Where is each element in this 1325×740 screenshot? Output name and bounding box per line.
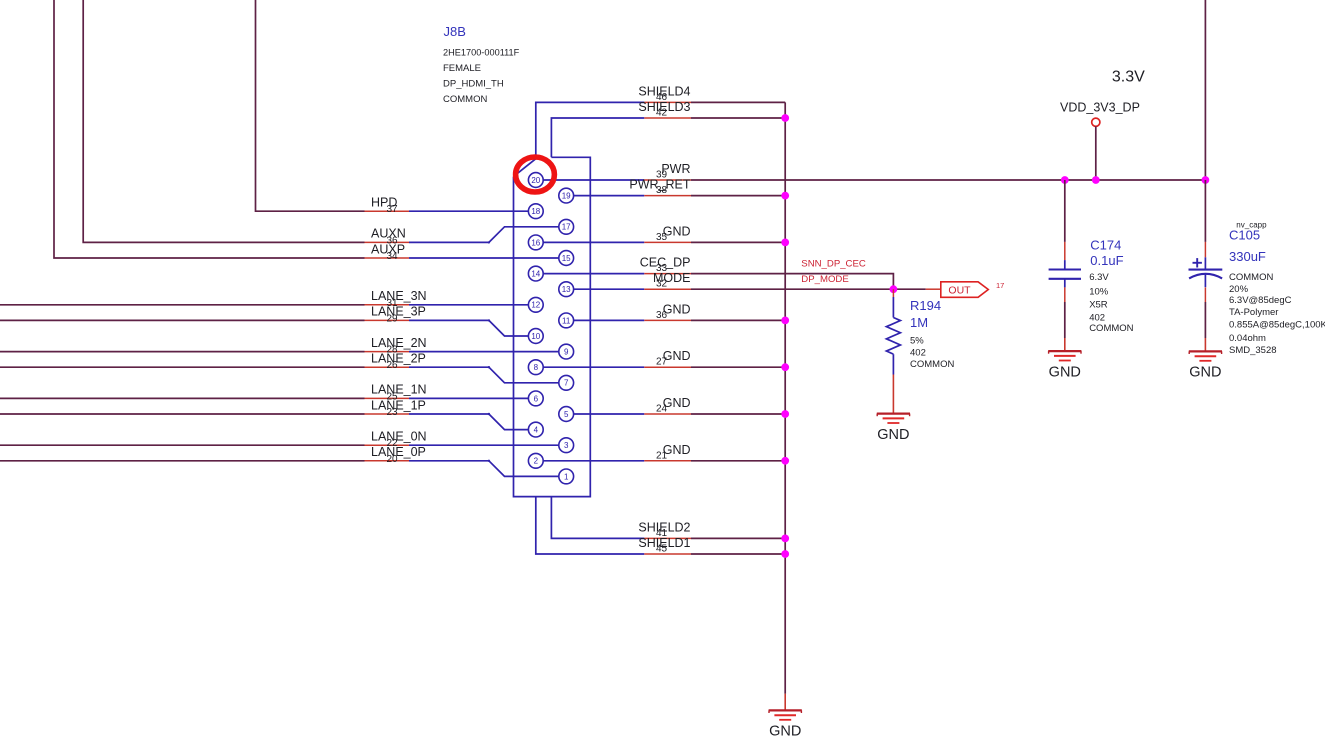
svg-text:402: 402 — [910, 347, 926, 358]
svg-text:0.855A@85degC,100KHz: 0.855A@85degC,100KHz — [1229, 319, 1325, 330]
resistor R194 — [892, 289, 894, 297]
junction — [781, 363, 789, 371]
junction — [781, 410, 789, 418]
svg-text:SMD_3528: SMD_3528 — [1229, 345, 1277, 356]
highlight circle (pin 20) — [516, 157, 555, 192]
junction (C174) — [1061, 176, 1069, 184]
svg-text:12: 12 — [531, 301, 540, 310]
svg-text:3.3V: 3.3V — [1112, 69, 1145, 86]
pin 12 — [528, 297, 543, 312]
svg-text:32: 32 — [656, 279, 668, 290]
capacitor C105 — [1204, 180, 1206, 242]
svg-text:LANE_0N: LANE_0N — [371, 430, 427, 444]
svg-text:OUT: OUT — [948, 284, 971, 296]
wire HPD (from top) — [256, 0, 365, 211]
svg-text:GND: GND — [877, 427, 909, 443]
svg-text:DP_MODE: DP_MODE — [801, 274, 848, 285]
svg-text:LANE_1P: LANE_1P — [371, 398, 426, 412]
svg-text:10%: 10% — [1089, 287, 1109, 298]
svg-text:COMMON: COMMON — [910, 359, 954, 370]
wire SHIELD3 stub — [551, 118, 644, 157]
wire SHIELD1 — [644, 553, 691, 555]
svg-text:10: 10 — [531, 332, 540, 341]
svg-text:16: 16 — [531, 238, 540, 247]
wire CEC_DP (pin 14) — [543, 273, 644, 275]
svg-text:34: 34 — [387, 251, 399, 262]
junction — [781, 192, 789, 200]
svg-text:6.3V@85degC: 6.3V@85degC — [1229, 295, 1292, 306]
wire SHIELD4 stub — [536, 102, 645, 158]
pin 7 — [559, 375, 574, 390]
wire LANE_2N — [0, 351, 365, 353]
pin 6 — [528, 391, 543, 406]
wire AUXN (from top-left) — [83, 0, 364, 242]
wire LANE_3P — [0, 319, 365, 321]
svg-text:GND: GND — [769, 724, 801, 740]
svg-text:4: 4 — [534, 426, 539, 435]
connector J8B chamfer — [514, 159, 537, 177]
wire LANE_2P — [0, 366, 365, 368]
wire LANE_0N — [0, 444, 365, 446]
junction — [781, 114, 789, 122]
svg-text:17: 17 — [562, 223, 571, 232]
svg-text:6.3V: 6.3V — [1089, 272, 1109, 283]
pin 8 — [528, 360, 543, 375]
wire SHIELD1 stub — [536, 497, 645, 554]
svg-text:18: 18 — [531, 207, 540, 216]
svg-text:26: 26 — [387, 360, 399, 371]
svg-text:C174: C174 — [1090, 238, 1121, 253]
wire VDD stub — [1095, 126, 1097, 180]
pin 13 — [559, 282, 574, 297]
wire SHIELD3 — [644, 117, 691, 119]
wire GND pin 8 — [543, 366, 644, 368]
wire GND pin 11 — [574, 319, 645, 321]
pin 17 — [559, 219, 574, 234]
wire GND pin 16 — [543, 241, 644, 243]
svg-text:37: 37 — [387, 204, 399, 215]
svg-text:13: 13 — [562, 285, 571, 294]
wire vertical bus (shield/gnd return) — [784, 102, 786, 693]
pin 5 — [559, 407, 574, 422]
pin 19 — [559, 188, 574, 203]
pin 15 — [559, 251, 574, 266]
svg-text:LANE_1N: LANE_1N — [371, 383, 427, 397]
junction — [781, 535, 789, 543]
svg-text:6: 6 — [534, 394, 539, 403]
pin 4 — [528, 422, 543, 437]
wire LANE_1P — [0, 413, 365, 415]
wire SHIELD2 — [644, 537, 691, 539]
wire LANE_0P — [0, 460, 365, 462]
svg-text:VDD_3V3_DP: VDD_3V3_DP — [1060, 100, 1140, 114]
junction — [781, 550, 789, 558]
svg-text:11: 11 — [562, 316, 571, 325]
pin 1 — [559, 469, 574, 484]
svg-text:35: 35 — [656, 232, 668, 243]
ground (C174) — [1064, 338, 1066, 351]
svg-text:X5R: X5R — [1089, 300, 1108, 311]
svg-text:402: 402 — [1089, 313, 1105, 324]
svg-text:9: 9 — [564, 348, 569, 357]
svg-text:20: 20 — [387, 454, 399, 465]
wire LANE_3N — [0, 304, 365, 306]
svg-text:R194: R194 — [910, 298, 941, 313]
svg-text:FEMALE: FEMALE — [443, 63, 481, 74]
svg-text:LANE_2P: LANE_2P — [371, 352, 426, 366]
svg-text:330uF: 330uF — [1229, 249, 1266, 264]
junction — [781, 239, 789, 247]
svg-text:20: 20 — [531, 176, 540, 185]
svg-text:GND: GND — [1189, 365, 1221, 381]
svg-text:14: 14 — [531, 270, 540, 279]
svg-text:21: 21 — [656, 450, 668, 461]
svg-text:1: 1 — [564, 472, 569, 481]
svg-text:DP_HDMI_TH: DP_HDMI_TH — [443, 79, 504, 90]
svg-text:LANE_3P: LANE_3P — [371, 305, 426, 319]
svg-text:38: 38 — [656, 185, 668, 196]
connector J8B body — [514, 157, 591, 496]
pin 16 — [528, 235, 543, 250]
svg-text:0.1uF: 0.1uF — [1090, 253, 1123, 268]
svg-text:5%: 5% — [910, 335, 924, 346]
svg-text:LANE_0P: LANE_0P — [371, 445, 426, 459]
svg-text:42: 42 — [656, 108, 668, 119]
svg-text:2HE1700-000111F: 2HE1700-000111F — [443, 48, 520, 58]
junction — [781, 457, 789, 465]
ground (C105) — [1204, 338, 1206, 351]
wire MODE (pin 13) — [574, 288, 645, 290]
svg-text:COMMON: COMMON — [1089, 323, 1133, 334]
svg-text:2: 2 — [534, 457, 539, 466]
off-page connector OUT — [941, 282, 989, 298]
svg-text:27: 27 — [656, 357, 668, 368]
svg-text:24: 24 — [656, 404, 668, 415]
svg-text:5: 5 — [564, 410, 569, 419]
svg-text:29: 29 — [387, 313, 399, 324]
svg-text:0.04ohm: 0.04ohm — [1229, 333, 1266, 344]
svg-text:8: 8 — [534, 363, 539, 372]
wire PWR_RET (pin 19) — [574, 195, 645, 197]
wire LANE_1N — [0, 397, 365, 399]
svg-text:20%: 20% — [1229, 284, 1249, 295]
wire SHIELD4 — [644, 101, 691, 103]
svg-text:1M: 1M — [910, 315, 928, 330]
pin 9 — [559, 344, 574, 359]
svg-text:17: 17 — [996, 281, 1004, 290]
svg-text:LANE_2N: LANE_2N — [371, 336, 427, 350]
svg-text:3: 3 — [564, 441, 569, 450]
svg-text:COMMON: COMMON — [1229, 272, 1273, 283]
pin 2 — [528, 453, 543, 468]
junction (VDD) — [1092, 176, 1100, 184]
svg-text:C105: C105 — [1229, 227, 1260, 242]
wire PWR (pin 20) — [543, 179, 644, 181]
svg-text:GND: GND — [1049, 364, 1081, 380]
svg-text:SNN_DP_CEC: SNN_DP_CEC — [801, 258, 866, 269]
C105 plus sign — [1193, 262, 1202, 264]
wire 3.3V rail (from top) — [1204, 0, 1206, 180]
pin 3 — [559, 438, 574, 453]
pin 11 — [559, 313, 574, 328]
wire AUXP (from top-left) — [54, 0, 365, 258]
ground (R194) — [892, 375, 894, 414]
junction (C105) — [1202, 176, 1210, 184]
svg-text:45: 45 — [656, 544, 668, 555]
pin 18 — [528, 204, 543, 219]
pin 10 — [528, 329, 543, 344]
svg-text:J8B: J8B — [444, 24, 466, 39]
pin 20 — [528, 173, 543, 188]
junction (R194/MODE) — [890, 285, 898, 293]
svg-text:23: 23 — [387, 407, 399, 418]
svg-text:TA-Polymer: TA-Polymer — [1229, 307, 1278, 318]
wire GND pin 2 — [543, 460, 644, 462]
svg-text:LANE_3N: LANE_3N — [371, 289, 427, 303]
pin 14 — [528, 266, 543, 281]
svg-text:36: 36 — [656, 310, 668, 321]
wire SHIELD2 stub — [551, 497, 644, 539]
ground (bus bottom) — [784, 694, 786, 711]
junction — [781, 317, 789, 325]
svg-text:19: 19 — [562, 192, 571, 201]
capacitor C174 — [1064, 180, 1066, 242]
svg-text:COMMON: COMMON — [443, 94, 487, 105]
svg-text:15: 15 — [562, 254, 571, 263]
svg-text:7: 7 — [564, 379, 569, 388]
wire GND pin 5 — [574, 413, 645, 415]
